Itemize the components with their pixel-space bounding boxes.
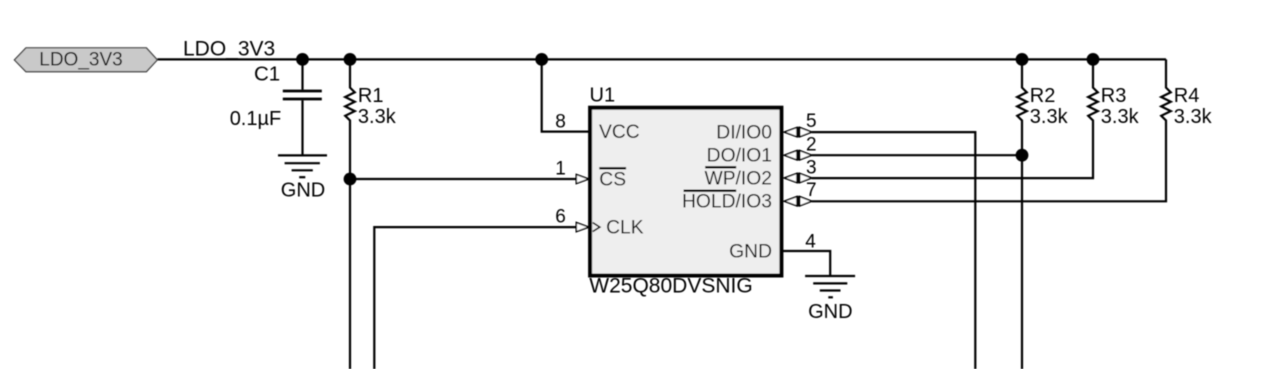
svg-text:1: 1 [555, 159, 566, 180]
svg-text:LDO_3V3: LDO_3V3 [183, 37, 275, 60]
svg-text:GND: GND [281, 179, 325, 201]
svg-text:R2: R2 [1030, 85, 1056, 107]
svg-text:5: 5 [806, 111, 817, 132]
svg-text:8: 8 [555, 112, 566, 133]
svg-text:R4: R4 [1174, 85, 1200, 107]
svg-text:R1: R1 [358, 85, 384, 107]
svg-text:C1: C1 [254, 63, 280, 86]
svg-text:7: 7 [806, 180, 817, 201]
svg-text:CLK: CLK [606, 217, 644, 238]
svg-text:3.3k: 3.3k [358, 106, 397, 128]
svg-text:3: 3 [806, 158, 817, 179]
svg-text:3.3k: 3.3k [1030, 106, 1069, 128]
svg-text:WP/IO2: WP/IO2 [705, 168, 773, 189]
svg-text:4: 4 [805, 231, 816, 252]
svg-text:6: 6 [555, 207, 566, 228]
svg-text:0.1µF: 0.1µF [230, 108, 282, 130]
svg-text:DO/IO1: DO/IO1 [707, 146, 772, 167]
svg-text:GND: GND [808, 301, 852, 323]
svg-text:CS: CS [599, 169, 626, 190]
svg-text:GND: GND [729, 241, 772, 262]
svg-text:DI/IO0: DI/IO0 [716, 123, 772, 144]
svg-text:3.3k: 3.3k [1174, 106, 1213, 128]
svg-text:U1: U1 [590, 85, 616, 107]
svg-text:W25Q80DVSNIG: W25Q80DVSNIG [589, 274, 752, 297]
svg-text:2: 2 [806, 134, 817, 155]
svg-text:VCC: VCC [599, 122, 640, 143]
svg-text:LDO_3V3: LDO_3V3 [39, 50, 122, 71]
svg-text:R3: R3 [1101, 85, 1127, 107]
svg-text:HOLD/IO3: HOLD/IO3 [682, 192, 772, 213]
svg-text:3.3k: 3.3k [1101, 106, 1140, 128]
